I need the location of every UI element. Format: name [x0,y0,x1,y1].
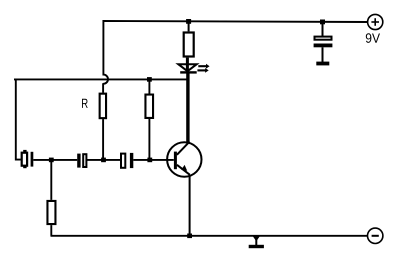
node junction supply to R3 [186,19,191,24]
capacitor C1 positive plate [83,154,86,167]
transistor Q1 emitter arrowhead [181,165,187,171]
ground symbol stem [255,236,257,245]
transistor Q1 emitter stroke [177,165,190,175]
wire R4 bottom lead [50,225,52,236]
LED D1 cathode bar [180,71,197,73]
wire R3 top lead [188,21,190,31]
microphone MIC bottom tab [23,166,26,168]
transistor Q1 collector stroke [177,142,190,155]
resistor R2 [145,95,153,118]
wire mic to C1 [33,159,77,161]
label 9V [366,33,380,43]
node junction R feedback divider [101,158,106,163]
wire emitter lead [189,175,191,236]
node junction mic divider [49,158,54,163]
battery terminal plus sign [371,21,379,23]
wire anode lead through LED [186,58,189,73]
ground symbol bar [249,245,264,248]
wire feedback line [14,78,188,80]
transistor Q1 circle [167,142,201,176]
node junction emitter to rail [187,234,192,239]
node junction base bias [147,158,152,163]
ground C3 end bar [316,62,329,66]
transistor Q1 base bar [174,152,177,170]
resistor R4 [47,201,55,224]
capacitor C3 negative plate [314,44,333,48]
wire left vertical down to microphone [16,79,21,160]
LED D1 light arrow upper [198,65,206,67]
microphone MIC top tab [23,150,26,152]
battery terminal negative circle [368,228,383,243]
wire C2 to transistor base [133,159,174,161]
LED D1 triangle [178,64,196,71]
wire bottom return rail [51,235,368,237]
resistor R3 [184,33,194,57]
microphone MIC body [22,153,27,166]
capacitor C2 positive plate [121,154,125,168]
battery terminal positive circle [368,14,383,29]
wire C1 to C2 [87,159,121,161]
capacitor C2 negative plate [130,153,133,168]
capacitor C3 positive plate [315,37,332,40]
wire top supply rail [103,21,368,22]
battery terminal minus sign [372,235,379,237]
LED D1 light arrow lower [197,69,205,71]
node junction R2 feedback [147,77,152,82]
wire R2 top lead [148,79,150,93]
label R value [82,99,88,108]
capacitor C1 negative plate [77,154,80,168]
microphone MIC plate [31,152,34,167]
resistor R [100,94,106,119]
wire R bottom lead [102,119,104,160]
wire R4 top lead [50,160,52,200]
wire collector thick lead [186,73,189,143]
wire C3 top lead [322,22,324,36]
ground symbol stem junction [252,235,261,241]
wire R2 bottom lead [148,119,150,160]
wire vertical from rail corner with hop over feedback wire [103,20,108,93]
node junction supply to C3 [320,20,325,25]
wire C3 bottom lead [322,47,324,62]
